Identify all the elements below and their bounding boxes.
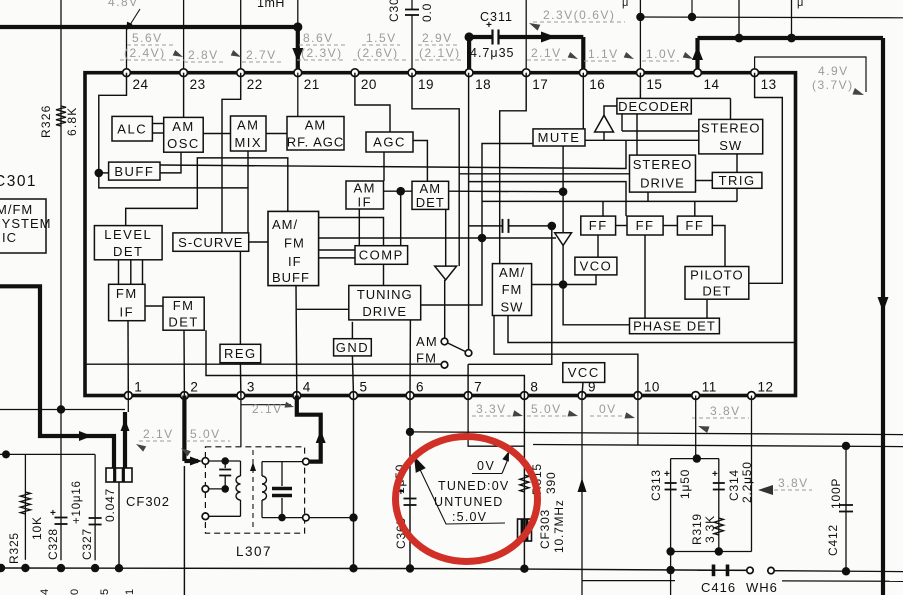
svg-text:+10μ16: +10μ16	[71, 480, 83, 524]
svg-text:4: 4	[39, 588, 51, 595]
svg-text:10.7MHz: 10.7MHz	[552, 499, 566, 553]
svg-text:2.1V: 2.1V	[252, 402, 283, 416]
svg-text:TUNING: TUNING	[357, 287, 413, 302]
svg-text:AM: AM	[237, 117, 260, 132]
svg-text:17: 17	[532, 77, 548, 92]
svg-text:LEVEL: LEVEL	[104, 227, 152, 242]
svg-text:IF: IF	[357, 195, 372, 210]
svg-text:DET: DET	[168, 315, 199, 330]
svg-text:3.8V: 3.8V	[778, 476, 809, 490]
svg-text:4: 4	[303, 380, 311, 395]
svg-text:C313: C313	[649, 469, 663, 501]
svg-text:S-CURVE: S-CURVE	[178, 235, 243, 250]
svg-text:C30: C30	[387, 0, 401, 22]
svg-text:DRIVE: DRIVE	[640, 176, 685, 191]
svg-text:5.0V: 5.0V	[531, 402, 562, 416]
svg-text:DRIVE: DRIVE	[362, 304, 407, 319]
svg-text:4.8V: 4.8V	[108, 0, 139, 9]
svg-text:COMP: COMP	[359, 248, 404, 263]
svg-text:AM: AM	[416, 334, 438, 349]
svg-text:2.9V: 2.9V	[422, 31, 453, 45]
svg-text:PILOTO: PILOTO	[690, 267, 743, 282]
svg-text:4.9V: 4.9V	[818, 64, 849, 78]
svg-text:FF: FF	[589, 218, 608, 233]
svg-text:1μ50: 1μ50	[678, 469, 692, 499]
svg-text:5: 5	[99, 588, 111, 595]
svg-text:VCO: VCO	[580, 259, 613, 274]
svg-text:8.6V: 8.6V	[303, 31, 334, 45]
svg-text:C314: C314	[727, 469, 741, 501]
svg-text:18: 18	[475, 77, 491, 92]
svg-text:WH6: WH6	[746, 580, 778, 595]
svg-text:REG: REG	[224, 346, 257, 361]
svg-text:0V: 0V	[599, 402, 617, 416]
svg-text:AGC: AGC	[373, 135, 406, 150]
svg-text:3: 3	[247, 380, 255, 395]
svg-text:FF: FF	[636, 218, 655, 233]
svg-text:M/FM: M/FM	[0, 202, 33, 217]
svg-text:STEREO: STEREO	[701, 121, 760, 136]
svg-text:SW: SW	[719, 138, 742, 153]
svg-text:FF: FF	[685, 218, 704, 233]
svg-text:0.0: 0.0	[420, 3, 434, 22]
svg-text:IF: IF	[288, 254, 302, 269]
svg-text:1.0V: 1.0V	[646, 47, 677, 61]
svg-text:IF: IF	[120, 304, 135, 319]
svg-text:0V: 0V	[477, 459, 495, 473]
svg-text:100P: 100P	[829, 478, 843, 509]
svg-text:GND: GND	[336, 340, 369, 355]
svg-text:μ: μ	[622, 0, 630, 9]
svg-text:5.6V: 5.6V	[132, 31, 163, 45]
svg-text:0: 0	[69, 588, 81, 595]
svg-text:FM: FM	[416, 351, 437, 366]
svg-text:20: 20	[361, 77, 377, 92]
svg-text:STEREO: STEREO	[633, 157, 692, 172]
svg-text:2.8V: 2.8V	[188, 48, 219, 62]
svg-text:5.0V: 5.0V	[190, 427, 221, 441]
svg-text:MUTE: MUTE	[538, 130, 581, 145]
svg-text:MIX: MIX	[234, 135, 262, 150]
svg-text:R319: R319	[690, 513, 704, 545]
svg-text:TRIG: TRIG	[719, 173, 756, 188]
svg-text:TUNED:0V: TUNED:0V	[438, 479, 509, 493]
svg-text:IC: IC	[2, 230, 17, 245]
svg-text:+: +	[486, 20, 493, 31]
svg-text:DET: DET	[113, 244, 144, 259]
svg-text:R326: R326	[39, 105, 53, 139]
svg-text:21: 21	[304, 77, 320, 92]
svg-text:390: 390	[544, 472, 558, 494]
svg-text:UNTUNED: UNTUNED	[434, 495, 504, 509]
svg-text:OSC: OSC	[167, 136, 200, 151]
svg-text:(2.1V): (2.1V)	[419, 46, 461, 60]
svg-text:6.8K: 6.8K	[65, 107, 79, 137]
svg-text:1.5V: 1.5V	[366, 31, 397, 45]
svg-text:6: 6	[416, 380, 424, 395]
svg-text:C412: C412	[826, 524, 840, 556]
svg-text:AM: AM	[172, 119, 195, 134]
svg-text:5: 5	[360, 380, 368, 395]
svg-text:C327: C327	[80, 528, 94, 560]
svg-text:1mH: 1mH	[257, 0, 285, 10]
svg-text:FM: FM	[284, 236, 305, 251]
svg-text:11: 11	[702, 380, 717, 395]
svg-text:(2.4V): (2.4V)	[124, 46, 166, 60]
svg-text:+: +	[50, 508, 57, 519]
svg-text:SW: SW	[501, 300, 524, 315]
svg-text:+: +	[664, 469, 671, 480]
svg-text:AM/: AM/	[272, 217, 298, 232]
svg-text:VCC: VCC	[568, 365, 600, 380]
svg-text:3.8V: 3.8V	[710, 404, 741, 418]
svg-text:L307: L307	[236, 544, 272, 559]
svg-text:19: 19	[418, 77, 434, 92]
svg-text::5.0V: :5.0V	[452, 510, 487, 524]
svg-text:CF302: CF302	[126, 494, 170, 509]
svg-text:24: 24	[133, 77, 149, 92]
svg-text:FM: FM	[116, 286, 138, 301]
svg-text:AM: AM	[354, 181, 377, 196]
svg-text:14: 14	[704, 77, 720, 92]
svg-text:0.047: 0.047	[103, 488, 117, 522]
svg-text:AM/: AM/	[499, 265, 525, 280]
svg-text:1: 1	[134, 380, 142, 395]
svg-text:4.7μ35: 4.7μ35	[470, 46, 514, 60]
svg-text:C311: C311	[480, 10, 513, 24]
svg-text:10K: 10K	[30, 516, 44, 540]
svg-text:SYSTEM: SYSTEM	[0, 216, 51, 231]
svg-text:C328: C328	[46, 528, 60, 560]
svg-text:(2.6V): (2.6V)	[357, 46, 399, 60]
svg-text:13: 13	[761, 77, 777, 92]
svg-text:DET: DET	[416, 195, 445, 210]
svg-text:DECODER: DECODER	[618, 99, 690, 114]
svg-text:10: 10	[644, 380, 660, 395]
svg-text:1.1V: 1.1V	[588, 47, 619, 61]
svg-text:BUFF: BUFF	[114, 164, 154, 179]
svg-text:RF. AGC: RF. AGC	[287, 134, 345, 149]
svg-text:3.3K: 3.3K	[703, 515, 717, 543]
svg-text:+: +	[712, 469, 719, 480]
svg-text:μ: μ	[797, 0, 805, 9]
svg-text:7: 7	[474, 380, 482, 395]
svg-text:22: 22	[247, 77, 263, 92]
svg-text:2.1V: 2.1V	[143, 427, 174, 441]
svg-text:R325: R325	[7, 532, 21, 564]
svg-text:2.2μ50: 2.2μ50	[740, 461, 754, 503]
svg-text:1: 1	[124, 588, 136, 595]
svg-text:2.1V: 2.1V	[531, 46, 562, 60]
svg-text:AM: AM	[305, 118, 327, 133]
svg-text:CF303: CF303	[538, 509, 552, 549]
svg-text:2.7V: 2.7V	[246, 48, 277, 62]
svg-text:2: 2	[190, 380, 198, 395]
svg-text:FM: FM	[502, 282, 523, 297]
svg-text:(2.3V): (2.3V)	[301, 46, 343, 60]
svg-text:BUFF: BUFF	[272, 270, 310, 285]
svg-text:8: 8	[530, 380, 538, 395]
svg-text:2.3V(0.6V): 2.3V(0.6V)	[543, 8, 615, 22]
svg-text:3.3V: 3.3V	[476, 402, 507, 416]
svg-text:ALC: ALC	[117, 121, 147, 136]
svg-text:16: 16	[589, 77, 605, 92]
svg-text:23: 23	[190, 77, 206, 92]
svg-text:FM: FM	[173, 298, 195, 313]
svg-text:15: 15	[646, 77, 662, 92]
svg-text:12: 12	[758, 380, 774, 395]
svg-text:PHASE DET: PHASE DET	[633, 319, 716, 334]
svg-text:AM: AM	[420, 181, 442, 196]
svg-text:C301: C301	[0, 173, 37, 190]
svg-text:DET: DET	[702, 284, 731, 299]
svg-text:(3.7V): (3.7V)	[812, 78, 854, 92]
